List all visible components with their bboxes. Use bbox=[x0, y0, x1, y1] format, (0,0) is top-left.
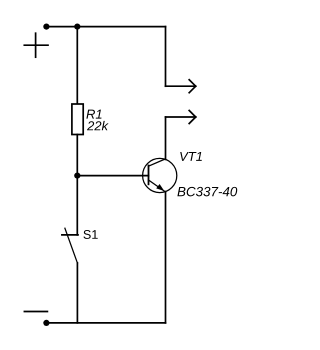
junction dot node A bbox=[74, 173, 80, 179]
wire: top rail down to resistor R1 bbox=[76, 27, 78, 104]
transistor VT1 circle bbox=[143, 158, 177, 192]
wire: emitter down to bottom rail bbox=[165, 192, 167, 323]
wire: resistor R1 to node A bbox=[76, 135, 78, 176]
wire: node A to transistor base bbox=[77, 175, 148, 177]
label BC337-40 bbox=[177, 187, 237, 196]
label R1 bbox=[86, 110, 101, 119]
output arrow 1 bbox=[166, 80, 196, 93]
wire: bottom rail bbox=[46, 322, 165, 324]
wire: switch S1 to bottom rail bbox=[76, 263, 78, 323]
minus terminal symbol bbox=[24, 311, 47, 313]
label S1 bbox=[83, 230, 97, 239]
transistor VT1 emitter lead bbox=[149, 180, 166, 192]
wire: right vertical from top rail to output 1 bbox=[165, 27, 167, 87]
wire: collector to output 2 bbox=[165, 117, 167, 159]
junction dot bottom-left bbox=[43, 320, 49, 326]
transistor VT1 base bar bbox=[148, 166, 150, 185]
transistor VT1 collector lead bbox=[149, 159, 166, 166]
output arrow 2 bbox=[166, 111, 196, 124]
plus terminal symbol bbox=[24, 33, 48, 57]
resistor R1 body bbox=[72, 104, 83, 135]
junction dot top at R1 branch bbox=[74, 24, 80, 30]
junction dot top-left bbox=[43, 24, 49, 30]
wire: top rail bbox=[46, 26, 165, 28]
switch S1 contact tick bbox=[62, 234, 78, 236]
transistor VT1 emitter arrowhead bbox=[156, 184, 164, 191]
label 22k bbox=[87, 121, 109, 130]
switch S1 blade bbox=[65, 228, 78, 263]
label VT1 bbox=[180, 152, 202, 161]
wire: node A down to switch S1 bbox=[76, 176, 78, 235]
